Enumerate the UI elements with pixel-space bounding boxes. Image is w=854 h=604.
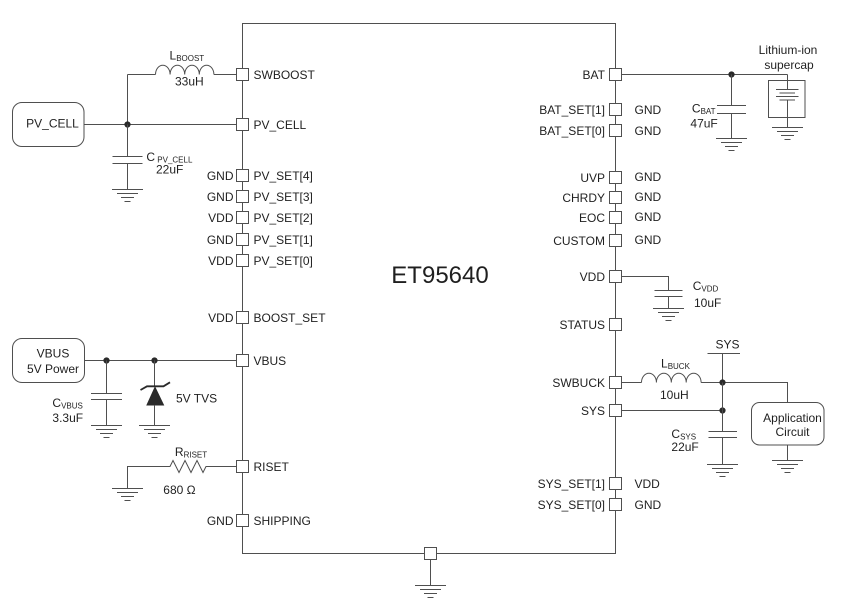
svg-text:PV_CELL: PV_CELL	[254, 118, 307, 132]
svg-text:supercap: supercap	[764, 58, 814, 72]
svg-text:VBUS: VBUS	[37, 347, 70, 361]
svg-text:Lithium-ion: Lithium-ion	[759, 43, 818, 57]
svg-text:VBUS: VBUS	[254, 354, 287, 368]
pin VBUS	[237, 355, 249, 367]
wire SWBUCK to L_BUCK	[622, 382, 642, 384]
pin BOOST_SET	[237, 312, 249, 324]
svg-text:5V TVS: 5V TVS	[176, 392, 217, 406]
svg-text:BOOST_SET: BOOST_SET	[254, 311, 327, 325]
ground under C_BAT	[716, 139, 747, 151]
node junction SYS net top	[719, 379, 725, 385]
pin PV_SET[1]	[237, 234, 249, 246]
VBUS source box	[13, 339, 85, 383]
ground under supercap	[772, 128, 803, 140]
pin EOC	[610, 212, 622, 224]
wire L_BUCK to application	[701, 383, 787, 403]
pin PV_CELL	[237, 119, 249, 131]
svg-text:GND: GND	[207, 514, 234, 528]
ground under C_PV_CELL	[112, 190, 143, 202]
svg-text:Application: Application	[763, 411, 822, 425]
capacitor C_VDD 10uF	[655, 291, 683, 309]
svg-text:PV_SET[2]: PV_SET[2]	[254, 211, 313, 225]
svg-text:STATUS: STATUS	[559, 318, 605, 332]
svg-text:BAT: BAT	[583, 68, 606, 82]
pin VDD	[610, 271, 622, 283]
wire VBUS box to VBUS pin	[85, 360, 237, 362]
svg-text:PV_SET[4]: PV_SET[4]	[254, 169, 313, 183]
ground under application box	[772, 461, 803, 473]
pin CUSTOM	[610, 235, 622, 247]
pin BAT_SET[1]	[610, 104, 622, 116]
pin SHIPPING	[237, 515, 249, 527]
svg-text:PV_SET[1]: PV_SET[1]	[254, 233, 313, 247]
svg-text:47uF: 47uF	[690, 116, 717, 130]
ground under C_VBUS	[91, 426, 122, 438]
svg-text:VDD: VDD	[208, 254, 234, 268]
svg-text:VDD: VDD	[580, 270, 606, 284]
wire corner to inductor	[128, 74, 156, 76]
wire SYS pin to junction	[622, 410, 723, 412]
svg-text:GND: GND	[635, 103, 662, 117]
resistor R_RISET 680 ohm	[128, 461, 237, 489]
wire down to C_PV_CELL	[127, 125, 129, 157]
svg-text:GND: GND	[635, 170, 662, 184]
node junction C_VBUS	[103, 357, 109, 363]
ground under TVS	[139, 426, 170, 438]
ground under chip bottom pin	[415, 586, 446, 598]
pin SYS_SET[0]	[610, 499, 622, 511]
pin CHRDY	[610, 192, 622, 204]
svg-text:680 Ω: 680 Ω	[163, 483, 195, 497]
pin UVP	[610, 172, 622, 184]
svg-text:VDD: VDD	[635, 477, 661, 491]
svg-text:SWBUCK: SWBUCK	[552, 376, 605, 390]
pin PV_SET[4]	[237, 170, 249, 182]
svg-text:10uH: 10uH	[660, 388, 689, 402]
svg-text:UVP: UVP	[580, 171, 605, 185]
wire PV_CELL box to PV_CELL pin	[84, 124, 237, 126]
capacitor C_BAT 47uF	[717, 75, 746, 139]
inductor L1 L_BOOST	[156, 65, 214, 74]
svg-text:BAT_SET[1]: BAT_SET[1]	[539, 103, 605, 117]
wire inductor to SWBOOST pin	[214, 74, 237, 76]
svg-text:3.3uF: 3.3uF	[52, 411, 83, 425]
svg-text:10uF: 10uF	[694, 296, 721, 310]
svg-text:Circuit: Circuit	[775, 425, 810, 439]
svg-text:VDD: VDD	[208, 211, 234, 225]
inductor L2 L_BUCK	[642, 373, 702, 382]
svg-text:EOC: EOC	[579, 211, 605, 225]
svg-text:PV_CELL: PV_CELL	[26, 117, 79, 131]
pin exposed pad bottom	[425, 548, 437, 560]
svg-text:5V Power: 5V Power	[27, 362, 79, 376]
svg-text:SYS_SET[0]: SYS_SET[0]	[538, 498, 605, 512]
node junction PV_CELL net	[124, 121, 130, 127]
pin BAT	[610, 69, 622, 81]
capacitor C_SYS 22uF	[709, 432, 738, 465]
wire application box to ground	[787, 445, 789, 461]
svg-text:SYS: SYS	[715, 338, 739, 352]
svg-text:GND: GND	[635, 124, 662, 138]
pin SYS_SET[1]	[610, 478, 622, 490]
svg-text:PV_SET[3]: PV_SET[3]	[254, 190, 313, 204]
svg-text:CHRDY: CHRDY	[562, 191, 605, 205]
wire bottom pin to ground	[430, 560, 432, 586]
ground under C_SYS	[707, 465, 738, 477]
svg-text:SWBOOST: SWBOOST	[254, 68, 316, 82]
Application Circuit box	[752, 403, 825, 446]
node junction SYS net lower	[719, 407, 725, 413]
capacitor C_VBUS 3.3uF	[91, 361, 122, 426]
pin PV_SET[2]	[237, 212, 249, 224]
pin PV_SET[3]	[237, 191, 249, 203]
pin PV_SET[0]	[237, 255, 249, 267]
svg-text:VDD: VDD	[208, 311, 234, 325]
chip U1 ET95640	[243, 24, 616, 554]
wire BAT net	[622, 74, 788, 76]
pin BAT_SET[0]	[610, 125, 622, 137]
pin STATUS	[610, 319, 622, 331]
capacitor C_PV_CELL 22uF	[113, 157, 143, 190]
svg-text:SHIPPING: SHIPPING	[254, 514, 311, 528]
svg-text:SYS: SYS	[581, 404, 605, 418]
svg-text:GND: GND	[635, 210, 662, 224]
svg-text:SYS_SET[1]: SYS_SET[1]	[538, 477, 605, 491]
svg-text:RISET: RISET	[254, 460, 290, 474]
svg-text:CUSTOM: CUSTOM	[553, 234, 605, 248]
PV_CELL source box	[13, 103, 85, 147]
ground under C_VDD	[653, 309, 684, 321]
svg-text:ET95640: ET95640	[391, 262, 488, 289]
svg-text:22uF: 22uF	[156, 163, 183, 177]
svg-text:GND: GND	[207, 190, 234, 204]
svg-text:22uF: 22uF	[671, 440, 698, 454]
svg-text:GND: GND	[207, 169, 234, 183]
pin SWBUCK	[610, 377, 622, 389]
node junction C_BAT	[728, 71, 734, 77]
wire SYS vertical	[722, 383, 724, 432]
pin RISET	[237, 461, 249, 473]
svg-text:33uH: 33uH	[175, 75, 204, 89]
svg-text:GND: GND	[635, 190, 662, 204]
pin SWBOOST	[237, 69, 249, 81]
wire L_BOOST corner down to PV_CELL net	[127, 75, 129, 125]
supercap B1 box	[769, 81, 806, 118]
svg-text:BAT_SET[0]: BAT_SET[0]	[539, 124, 605, 138]
ground under RISET resistor	[112, 489, 143, 501]
svg-text:GND: GND	[207, 233, 234, 247]
pin SYS	[610, 405, 622, 417]
svg-text:GND: GND	[635, 498, 662, 512]
supercap cell plates	[776, 90, 799, 128]
diode D1 5V TVS	[141, 361, 171, 426]
wire VDD decoupling	[622, 277, 669, 291]
svg-text:PV_SET[0]: PV_SET[0]	[254, 254, 313, 268]
wire into supercap	[787, 75, 789, 90]
svg-text:GND: GND	[635, 233, 662, 247]
node junction TVS	[151, 357, 157, 363]
